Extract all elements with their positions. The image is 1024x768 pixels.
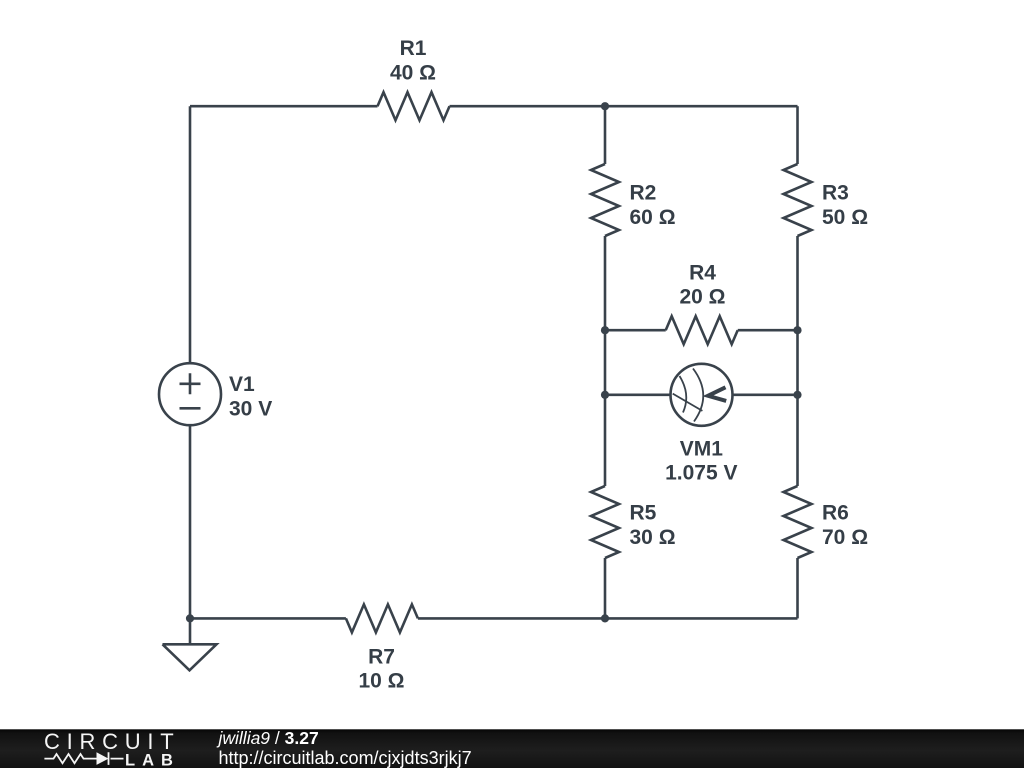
junction dot top middle node [601,102,609,110]
svg-text:jwillia9 / 3.27: jwillia9 / 3.27 [217,728,319,748]
wire R4 row left lead [605,329,666,332]
CircuitLab logo resistor-diode squiggle [44,752,123,765]
wire R4 row right lead [738,329,798,332]
wire right column segment B (R3 to R4 node) [796,236,799,330]
svg-text:CIRCUIT: CIRCUIT [44,729,180,754]
junction dot middle bottom node [601,614,609,622]
wire VM row left lead [605,393,671,396]
svg-text:60 Ω: 60 Ω [630,206,676,229]
svg-text:LAB: LAB [125,752,180,768]
svg-text:40 Ω: 40 Ω [390,61,436,84]
wire middle column segment C (R4 node to VM node) [604,330,607,395]
wire middle column segment A (top node to R2) [604,106,607,164]
svg-text:1.075 V: 1.075 V [665,462,737,485]
svg-text:R4: R4 [689,261,716,284]
svg-text:30 Ω: 30 Ω [630,526,676,549]
resistor R7 zigzag [346,604,418,632]
ground symbol triangle [163,644,217,670]
wire middle column segment B (R2 to R4 node) [604,236,607,330]
voltmeter VM1 rotated V glyph [708,387,726,401]
junction dot middle R4 node [601,326,609,334]
V1 minus sign [180,407,201,410]
svg-text:R5: R5 [630,501,657,524]
resistor R1 zigzag [378,92,450,120]
voltmeter VM1 meter face arcs and needle [673,369,704,422]
wire top-right horizontal (R1 right lead to right column) [450,105,798,108]
svg-text:R2: R2 [630,182,657,205]
junction dot right VM node [793,391,801,399]
voltmeter VM1 circle [671,364,733,426]
wire bottom right segment (R7 to right column) [418,617,798,620]
svg-text:R1: R1 [400,37,427,60]
svg-text:R6: R6 [822,501,849,524]
junction dot right R4 node [793,326,801,334]
wire left column upper (top wire down to V1 circle) [189,106,192,363]
svg-text:30 V: 30 V [229,398,272,421]
wire top-left horizontal (V1 top to R1 left lead) [190,105,378,108]
V1 plus sign [180,373,201,394]
resistor R3 zigzag [784,164,812,236]
resistor R4 zigzag [666,316,738,344]
wire bottom left segment (ground node to R7) [190,617,346,620]
wire middle column segment E (R5 to bottom wire) [604,558,607,618]
junction dot middle VM node [601,391,609,399]
wire right column segment C (R4 node to VM node) [796,330,799,395]
svg-text:50 Ω: 50 Ω [822,206,868,229]
junction dot ground node [186,614,194,622]
voltage source V1 circle [159,363,221,425]
svg-text:10 Ω: 10 Ω [358,670,404,693]
wire right column segment D (VM node to R6) [796,395,799,486]
svg-text:20 Ω: 20 Ω [679,286,725,309]
svg-text:http://circuitlab.com/cjxjdts3: http://circuitlab.com/cjxjdts3rjkj7 [219,748,472,768]
wire left column lower (V1 bottom to bottom wire and ground stub) [189,425,192,644]
svg-text:VM1: VM1 [680,437,724,460]
wire VM row right lead [732,393,797,396]
wire right column segment E (R6 to bottom wire) [796,558,799,618]
wire middle column segment D (VM node to R5) [604,395,607,486]
svg-text:R3: R3 [822,182,849,205]
svg-text:70 Ω: 70 Ω [822,526,868,549]
svg-text:R7: R7 [368,645,395,668]
resistor R2 zigzag [591,164,619,236]
svg-text:V1: V1 [229,373,255,396]
resistor R6 zigzag [784,486,812,558]
resistor R5 zigzag [591,486,619,558]
wire right column segment A (top wire to R3) [796,106,799,164]
